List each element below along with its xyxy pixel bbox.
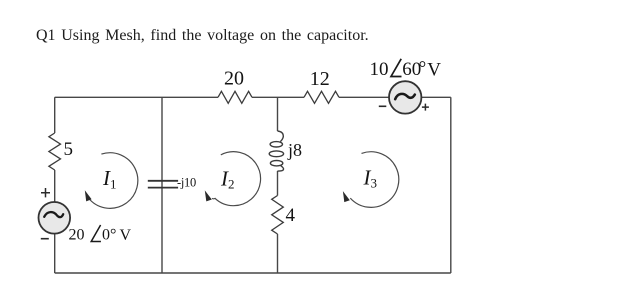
svg-text:0°: 0° xyxy=(102,227,116,244)
svg-text:I3: I3 xyxy=(363,165,378,190)
wire inductor branch top xyxy=(277,97,279,131)
inductor j8 (right middle branch) xyxy=(269,131,283,171)
wire top (node between sources and resistors) xyxy=(55,96,451,98)
svg-text:20: 20 xyxy=(224,68,244,90)
svg-text:-j10: -j10 xyxy=(177,176,196,190)
wire resistor-4 to bottom xyxy=(277,234,279,273)
svg-text:V: V xyxy=(427,60,441,81)
angle symbol of Vs2 label xyxy=(391,59,402,77)
svg-text:20: 20 xyxy=(69,227,85,244)
wire inductor-resistor link xyxy=(277,171,279,196)
mesh current I3 arrow xyxy=(343,152,399,208)
wire bottom (ground rail) xyxy=(55,272,451,274)
mesh current I2 arrow xyxy=(205,152,261,206)
label 20/_0 V xyxy=(69,227,132,245)
svg-text:V: V xyxy=(120,227,132,244)
svg-text:I2: I2 xyxy=(220,166,235,191)
minus sign of Vs1 xyxy=(41,238,49,240)
svg-text:j8: j8 xyxy=(287,140,302,160)
svg-text:5: 5 xyxy=(64,139,74,160)
resistor 20 ohm (top left) xyxy=(218,91,252,103)
svg-text:12: 12 xyxy=(310,68,330,90)
wire left branch xyxy=(54,97,56,273)
plus sign of Vs2 xyxy=(422,104,429,111)
plus sign of Vs1 xyxy=(41,188,50,197)
minus sign of Vs2 xyxy=(379,105,387,107)
wire right branch xyxy=(450,97,452,273)
svg-text:I1: I1 xyxy=(102,166,117,191)
label 10/_60 V xyxy=(370,58,442,80)
svg-text:°: ° xyxy=(419,58,427,79)
resistor 5 ohm (left branch) xyxy=(49,133,61,170)
svg-text:4: 4 xyxy=(286,205,296,226)
voltage source Vs1 20/_0 V (left) xyxy=(39,202,71,234)
mesh current I1 arrow xyxy=(85,153,138,209)
angle symbol of Vs1 label xyxy=(91,225,101,242)
capacitor -j10 (middle branch) xyxy=(148,181,178,188)
resistor 4 ohm (right middle branch) xyxy=(272,196,284,235)
resistor 12 ohm (top right) xyxy=(304,91,339,103)
svg-text:Q1 Using Mesh, find the voltag: Q1 Using Mesh, find the voltage on the c… xyxy=(36,27,369,44)
svg-text:10: 10 xyxy=(370,59,389,80)
voltage source Vs2 10/_60 V (top right) xyxy=(389,81,421,113)
wire capacitor branch (node A to bottom) xyxy=(161,97,163,273)
